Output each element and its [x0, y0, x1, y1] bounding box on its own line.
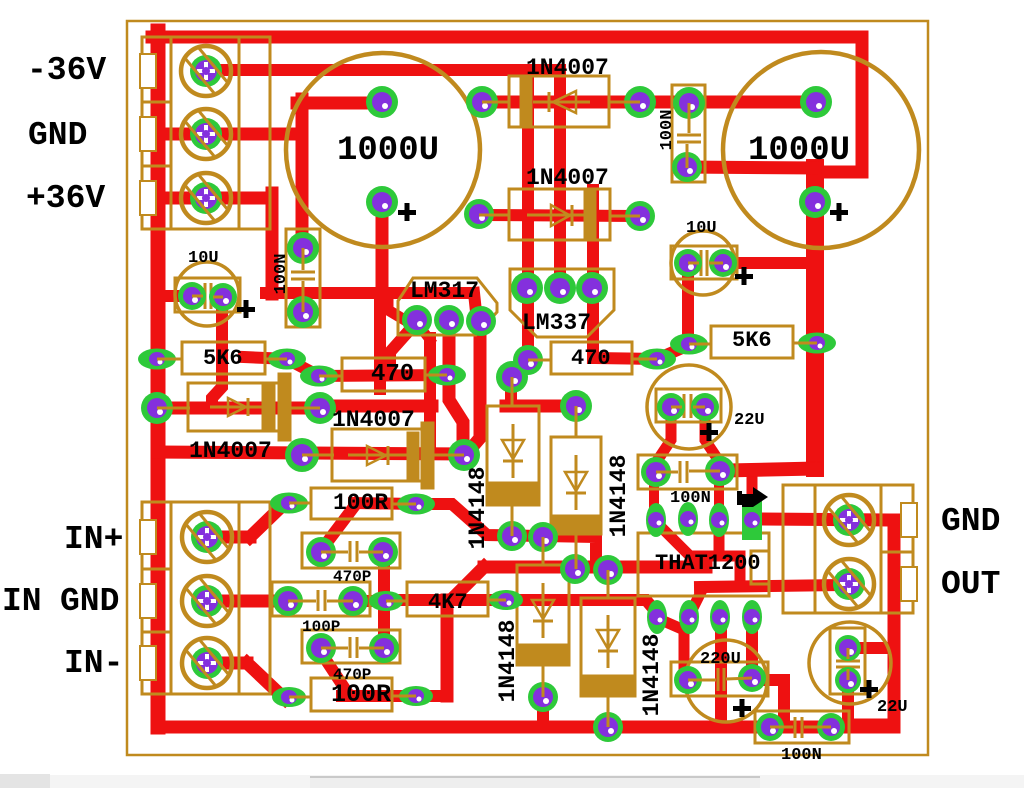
terminal pads green — [190, 55, 865, 679]
wire THAT bottom pad2 diag to OUT trace — [690, 590, 702, 614]
diode 1N4007 L2 body — [332, 429, 433, 481]
wire GND trace y520 to OUT block — [760, 519, 894, 520]
wire 10U-L right pad down — [212, 299, 222, 406]
svg-text:1000U: 1000U — [748, 132, 850, 170]
capacitor C1 1000U left circle — [286, 53, 480, 247]
capacitor 100N left — [286, 229, 320, 327]
wire stub down to LM317 pad1 — [388, 296, 403, 319]
pads purple centers — [147, 92, 857, 737]
svg-text:IN-: IN- — [64, 645, 123, 682]
wire IN+ diag to 100R pad — [250, 505, 283, 537]
resistor 470 left — [342, 358, 425, 391]
diode 1N4007 T1 body — [509, 76, 609, 127]
svg-text:GND: GND — [28, 117, 87, 154]
diode L1 leads and symbol — [157, 407, 190, 410]
resistor 4K7 — [407, 582, 488, 616]
wire 4K7 vertical x447 — [441, 600, 454, 696]
resistor 5K6 left — [182, 342, 265, 374]
polarity mark + C7 — [733, 699, 751, 717]
wire 100N-R pads stubs — [649, 477, 659, 514]
diode 1N4148 D2 body — [551, 437, 601, 534]
polarity mark + C6 — [860, 680, 878, 698]
wire 100Ntop bottom pad to right cap y167 — [687, 167, 815, 168]
svg-text:1N4007: 1N4007 — [526, 55, 609, 81]
wire 100R-B row y697 — [342, 690, 447, 702]
capacitor 100P — [272, 582, 370, 616]
diode L2 leads and symbol — [302, 454, 334, 457]
wire x380 through 470L — [374, 296, 386, 389]
wire THAT pad1 to 220U left pad — [659, 619, 684, 676]
wire THAT pad x752 down to 220U — [746, 620, 758, 676]
wire LM317 pad1 diag to 470L — [390, 324, 415, 374]
wire 22U-T pads down to 100N-R — [659, 412, 671, 458]
svg-text:470: 470 — [371, 361, 414, 388]
diode D1 leads and symbol — [511, 377, 514, 406]
svg-text:IN+: IN+ — [64, 521, 123, 558]
wire T2 diode lead right y215 — [484, 215, 640, 216]
diode D2 leads and symbol — [575, 406, 578, 437]
svg-text:100R: 100R — [333, 490, 388, 516]
wire 5K6L inner y357 — [244, 357, 289, 359]
IC pads SOIC — [646, 500, 762, 634]
svg-text:470: 470 — [571, 346, 611, 371]
svg-text:THAT1200: THAT1200 — [655, 551, 761, 576]
wire vertical x593 T2 to 470R — [587, 190, 599, 358]
svg-text:100N: 100N — [272, 254, 291, 295]
wire 100N-B right pad bus y725 — [831, 719, 850, 732]
wire T1 diode row y102 — [478, 96, 818, 109]
diode 1N4007 T2 body — [509, 189, 610, 240]
wire LM317 pad3 down to diode pad — [468, 325, 480, 452]
wire OUT trace y587 — [700, 585, 845, 587]
svg-text:1N4148: 1N4148 — [606, 455, 632, 538]
regulator LM317 outline — [398, 278, 497, 335]
svg-text:+36V: +36V — [26, 180, 105, 217]
wire 1N4007-L1 row y407 — [152, 402, 322, 415]
polarity mark + C4 — [735, 267, 753, 285]
cap leads — [688, 103, 691, 133]
pads drill glints — [157, 103, 854, 734]
wire 470P1 right pad down x384 — [378, 552, 390, 648]
polarity mark + C1 — [398, 203, 416, 221]
svg-text:22U: 22U — [734, 411, 765, 430]
pin1 arrow marker — [737, 487, 768, 507]
wire 1N4007-L2 row y453 — [158, 452, 464, 454]
capacitor 10U left — [175, 262, 239, 326]
wire pad 320,408 to x430 y406 — [316, 400, 432, 413]
wire diode pads to trace A — [543, 536, 596, 563]
wire 100R-T right to diode pads — [416, 504, 543, 536]
wire right main vertical x815 — [806, 168, 824, 468]
polarity mark + C5 — [700, 423, 718, 441]
pads green circles — [141, 86, 861, 742]
svg-text:22U: 22U — [877, 698, 908, 717]
wire left main vertical x158 — [151, 31, 166, 727]
wire -36V row y70 — [204, 64, 560, 76]
capacitor 22U bottom — [809, 622, 891, 704]
diode 1N4007 L1 body — [188, 383, 288, 431]
svg-text:5K6: 5K6 — [203, 346, 243, 371]
capacitor C2 1000U right circle — [723, 52, 919, 248]
connector X2 (IN) — [142, 502, 270, 694]
capacitor 10U right — [671, 231, 735, 295]
wire diag 100R-T to 470P1 — [322, 504, 356, 549]
svg-text:5K6: 5K6 — [732, 328, 772, 353]
svg-text:10U: 10U — [686, 219, 717, 238]
resistor leads — [157, 358, 182, 361]
diode 1N4148 D3 body — [517, 565, 569, 665]
svg-text:LM337: LM337 — [522, 310, 591, 336]
capacitor 100N right — [638, 455, 737, 489]
wire IN- row y663 — [207, 657, 247, 670]
svg-text:IN: IN — [2, 583, 42, 620]
svg-text:10U: 10U — [188, 249, 219, 268]
wire vertical x272 y198-296 — [266, 193, 279, 294]
wire IN GND row y601 — [207, 595, 288, 608]
diode 1N4148 D4 body — [581, 598, 635, 696]
wire diode3 bottom pad to bus — [537, 699, 549, 723]
diode 1N4148 D1 body — [487, 406, 539, 505]
svg-text:470P: 470P — [333, 666, 371, 684]
wire pin1 stub x752 — [747, 475, 758, 500]
wire 100P to 4K7 y601 — [353, 595, 386, 607]
polarity mark + C3 — [237, 300, 255, 318]
resistor 100R top — [311, 488, 392, 519]
svg-text:1N4007: 1N4007 — [526, 165, 609, 191]
wire diag 5K6L to 470L pads — [287, 359, 319, 376]
wire mid horizontal y293 — [266, 287, 472, 299]
pads green ellipses — [138, 333, 836, 708]
svg-text:4K7: 4K7 — [428, 590, 468, 615]
wire gnd-right to 100N pad y468 — [728, 468, 815, 470]
wire right bus corner down x862 — [815, 37, 862, 172]
wire 22U-B top pad to x894 — [848, 642, 894, 654]
wire 10U-R left pad down x688 — [682, 263, 694, 344]
svg-text:1N4148: 1N4148 — [639, 634, 665, 717]
connector X3 (GND OUT) — [783, 485, 913, 613]
wire bottom gnd bus y727 — [158, 721, 894, 734]
svg-text:100N: 100N — [670, 489, 711, 508]
svg-text:-36V: -36V — [27, 52, 106, 89]
capacitor 470P second — [302, 630, 400, 663]
diode D4 leads and symbol — [607, 570, 610, 598]
wire 10U-L stub y296 — [158, 290, 192, 302]
capacitor 220U — [685, 640, 767, 722]
wire x430 vertical pad1 to diode row — [417, 323, 430, 340]
board outline frame — [127, 21, 928, 755]
capacitor 470P first — [302, 533, 400, 568]
wire 10U-R to x815 y263 — [723, 257, 815, 269]
regulator LM337 outline — [510, 269, 614, 337]
wire +36V row y198 — [152, 192, 272, 205]
wire GND row y134 — [152, 128, 298, 141]
capacitor 100N top — [672, 85, 705, 182]
svg-text:GND: GND — [60, 583, 119, 620]
connector X1 (-36V GND +36V) — [142, 37, 270, 229]
wire vertical x302 y103-248 — [296, 99, 309, 246]
polarity mark + C2 — [830, 203, 848, 221]
wire right vertical x894 — [848, 520, 894, 725]
wire 4K7 right pad to THAT pin row y600 — [506, 600, 657, 613]
wire 22U-B bottom pad down — [842, 682, 854, 725]
wire vertical x560 from y70 to LM337 pad2 — [554, 70, 566, 288]
IC THAT1200 body — [638, 533, 769, 596]
svg-text:1N4007: 1N4007 — [332, 407, 415, 433]
svg-text:GND: GND — [941, 503, 1000, 540]
wire trace A y567 — [484, 561, 706, 574]
wire 100N-R right pad right y471 — [725, 469, 815, 471]
wire LM317 pad2 down jog — [449, 322, 463, 450]
wire diode1 top pad to diode2 top pad — [505, 383, 517, 406]
capacitor 22U top — [647, 365, 731, 449]
diode T2 leads and symbol — [479, 214, 509, 217]
wire IN+ row y537 — [207, 531, 250, 544]
svg-text:1N4007: 1N4007 — [189, 438, 272, 464]
svg-text:OUT: OUT — [941, 566, 1000, 603]
wire trace A left diag to 4K7 vertical — [449, 567, 484, 602]
svg-text:1N4148: 1N4148 — [495, 620, 521, 703]
resistor 100R bottom — [311, 678, 392, 711]
terminal pad centers with cross — [195, 60, 860, 674]
wire 220U right to 100N-B left — [752, 680, 784, 727]
capacitor 100N bottom — [755, 711, 849, 743]
wire vertical x528 from y70 to pad 527,288 and 528,360 — [522, 70, 534, 356]
terminal pad rings and slots — [181, 46, 874, 688]
svg-text:1000U: 1000U — [337, 132, 439, 170]
wire THAT top pads into chip diagonals — [657, 523, 740, 583]
wire top supply bus y37 — [152, 31, 862, 44]
wire 470R right lead y358 — [593, 358, 657, 359]
diode D3 leads and symbol — [542, 537, 545, 565]
wire corner into LM317 pad3 — [474, 293, 477, 321]
svg-text:1N4148: 1N4148 — [465, 467, 491, 550]
svg-text:100N: 100N — [658, 110, 677, 151]
wire IN- diag to 100R-B — [247, 663, 285, 699]
svg-text:100R: 100R — [331, 680, 391, 709]
resistor 5K6 right — [711, 326, 793, 358]
wire diag 470R-5K6R pads — [657, 345, 689, 359]
svg-text:470P: 470P — [333, 568, 371, 586]
wire cap1000L bottom pad down x382 — [376, 202, 389, 293]
svg-text:100P: 100P — [302, 618, 340, 636]
wire THAT pad x721 down to bus — [715, 620, 727, 725]
wire diag 470P2 to 100R-B row — [320, 651, 347, 692]
bottom scrollbar strip — [0, 775, 1024, 788]
wire 470L row y375 — [319, 375, 447, 376]
diode T1 leads and symbol — [482, 101, 509, 104]
wire stub y103 to cap pad — [297, 97, 382, 110]
resistor 470 right — [551, 342, 632, 374]
svg-text:100N: 100N — [781, 746, 822, 765]
plus marks — [237, 203, 878, 717]
wire 4K7 row y600 — [390, 594, 506, 606]
svg-text:LM317: LM317 — [410, 278, 479, 304]
svg-text:220U: 220U — [700, 650, 741, 669]
